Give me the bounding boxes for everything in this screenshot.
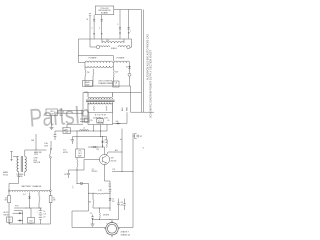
svg-text:6V: 6V xyxy=(44,216,46,218)
vertical label right 1 xyxy=(146,34,149,80)
wire xyxy=(72,211,89,228)
zener D4 xyxy=(101,136,108,147)
connector pin M1 xyxy=(87,14,92,40)
capacitor C11 xyxy=(117,199,123,220)
transformer T2 xyxy=(86,93,115,113)
label T3 xyxy=(17,174,24,178)
wire xyxy=(78,56,113,63)
resistor R4 xyxy=(85,70,90,87)
resistor R5 xyxy=(92,69,95,86)
label F1 xyxy=(44,142,49,147)
wire ACC xyxy=(108,149,122,153)
svg-text:2SB234 (2): 2SB234 (2) xyxy=(121,234,131,236)
transformer T1 primary xyxy=(85,57,130,62)
wire xyxy=(73,131,101,137)
charge coil L3 xyxy=(8,190,51,192)
thyristor SCR1 xyxy=(28,208,35,224)
junction row xyxy=(14,205,42,208)
svg-text:OUT: OUT xyxy=(112,169,115,171)
label VOL xyxy=(63,150,69,154)
transformer T1 secondary xyxy=(85,66,113,68)
wire OUT xyxy=(112,169,133,172)
wire rail V1 xyxy=(140,10,142,113)
diode D9 xyxy=(88,145,105,155)
connector CN1 xyxy=(113,81,119,87)
svg-text:F: F xyxy=(73,188,74,190)
vertical label right 2 xyxy=(150,49,153,118)
wire BLK xyxy=(58,109,84,111)
wire xyxy=(84,62,86,69)
capacitor C4 xyxy=(93,106,96,111)
resistor R17 xyxy=(88,193,94,208)
svg-text:5: 5 xyxy=(92,28,93,30)
svg-text:C2: C2 xyxy=(8,220,10,222)
svg-text:470: 470 xyxy=(121,202,124,204)
wire xyxy=(114,9,142,11)
label main plug xyxy=(3,171,9,176)
label aux xyxy=(4,211,9,216)
resistor R11 xyxy=(49,192,56,225)
power regulator board U1 xyxy=(95,6,114,15)
svg-text:FIELD: FIELD xyxy=(111,48,118,50)
svg-text:50: 50 xyxy=(5,198,7,200)
wire bus xyxy=(78,39,131,56)
label PVR xyxy=(84,92,89,94)
wire RED xyxy=(58,113,84,117)
svg-text:2SC945: 2SC945 xyxy=(111,160,117,162)
wire xyxy=(93,207,110,210)
transformer T3 xyxy=(17,156,26,172)
svg-text:RED: RED xyxy=(127,106,129,111)
lamp PL1 xyxy=(128,71,131,87)
connector pin 3 xyxy=(117,10,121,40)
wire xyxy=(9,223,51,225)
ground xyxy=(50,128,54,130)
diode D5 xyxy=(23,193,31,209)
wire xyxy=(9,172,25,190)
power transistor Q6 xyxy=(72,220,133,238)
resistor R18 xyxy=(99,208,102,220)
svg-text:25V: 25V xyxy=(121,204,124,206)
wire xyxy=(85,86,131,112)
wire xyxy=(92,218,118,221)
battery BT1 xyxy=(37,208,43,224)
fuse F1 xyxy=(50,141,52,190)
capacitor C12 xyxy=(123,199,125,211)
motor field coil L2 xyxy=(90,39,132,50)
svg-text:SWITCH: SWITCH xyxy=(34,162,41,164)
svg-text:DET: DET xyxy=(78,153,81,155)
label battery xyxy=(44,211,47,218)
capacitor C6 xyxy=(54,131,57,140)
wire node B xyxy=(83,93,141,117)
label driver xyxy=(103,215,110,217)
connector pin 2 xyxy=(128,10,131,39)
label main sw xyxy=(34,151,42,156)
connector pin 5 xyxy=(92,15,96,39)
wire xyxy=(131,111,155,113)
capacitor C7 xyxy=(109,184,112,194)
resistor R10 xyxy=(4,192,10,225)
svg-text:C7: C7 xyxy=(109,184,111,186)
svg-text:1: 1 xyxy=(115,85,116,87)
label Q5 xyxy=(92,149,117,173)
svg-text:12V: 12V xyxy=(112,201,115,203)
svg-text:D.C.: D.C. xyxy=(23,194,27,196)
wire xyxy=(80,116,88,122)
jack J5 xyxy=(133,133,142,138)
svg-text:SCHEMATIC DIAGRAM POWER SUPPLY: SCHEMATIC DIAGRAM POWER SUPPLY SECTION S… xyxy=(150,49,153,118)
transistor Q5 xyxy=(77,152,110,188)
wire xyxy=(112,62,114,69)
watermark xyxy=(28,100,91,132)
inductor L1 xyxy=(102,39,124,43)
wire xyxy=(51,116,53,128)
svg-text:R5: R5 xyxy=(90,120,92,122)
svg-text:TRANS: TRANS xyxy=(17,175,24,178)
wire xyxy=(109,208,111,211)
wire xyxy=(94,125,108,132)
svg-text:TRANSFORMER: TRANSFORMER xyxy=(98,82,113,85)
svg-text:4: 4 xyxy=(99,28,100,30)
relay RY1 xyxy=(63,128,71,134)
connector main plug xyxy=(10,152,13,162)
diode D1 xyxy=(126,62,131,70)
svg-text:L4: L4 xyxy=(83,128,85,130)
label battery charge xyxy=(22,185,42,188)
svg-text:IC-1: IC-1 xyxy=(98,121,101,123)
resistor R12 xyxy=(39,192,40,208)
svg-text:B+: B+ xyxy=(44,211,46,213)
photo sensor LDR1 xyxy=(46,109,58,116)
diode D6 xyxy=(109,193,115,208)
capacitor C10 xyxy=(64,170,77,178)
svg-text:MR.SE: MR.SE xyxy=(4,215,9,217)
resistor R3 xyxy=(113,70,119,87)
wire rail right xyxy=(132,133,134,228)
thermal unit TH1 xyxy=(83,81,93,87)
svg-text:VOL: VOL xyxy=(78,151,81,153)
inductor L4 xyxy=(80,128,89,131)
wire xyxy=(87,184,90,212)
svg-text:680: 680 xyxy=(88,202,91,204)
svg-text:2SD313: 2SD313 xyxy=(92,171,98,173)
svg-text:12V: 12V xyxy=(44,214,47,216)
svg-text:2W: 2W xyxy=(87,72,90,74)
svg-text:PLUG: PLUG xyxy=(3,174,9,176)
wire xyxy=(73,182,89,189)
vertical label RED xyxy=(127,106,129,111)
capacitor C8 xyxy=(70,137,74,145)
svg-text:C8: C8 xyxy=(107,120,109,122)
LED D2 xyxy=(113,112,128,124)
svg-text:DRIVER: DRIVER xyxy=(103,215,110,217)
vertical label BLK xyxy=(122,107,124,111)
svg-text:D6: D6 xyxy=(112,199,114,201)
label Q6 xyxy=(121,232,131,237)
diode D7 xyxy=(13,212,23,214)
LED D3 xyxy=(62,124,83,132)
capacitor C9 xyxy=(90,213,95,226)
svg-text:S Y S T E M: S Y S T E M xyxy=(95,114,106,116)
svg-text:C9: C9 xyxy=(90,213,92,215)
capacitor C5 xyxy=(105,106,108,111)
svg-text:50: 50 xyxy=(53,198,55,200)
svg-text:D1: D1 xyxy=(126,67,128,69)
svg-text:BATTERY CHARGE: BATTERY CHARGE xyxy=(22,185,42,188)
svg-text:B+: B+ xyxy=(120,138,122,140)
resistor R15 xyxy=(77,158,78,184)
connector pin 4 xyxy=(99,15,103,39)
label idle control transformer xyxy=(98,80,113,85)
svg-text:BOARD: BOARD xyxy=(101,11,109,14)
wire xyxy=(13,150,32,157)
wire rail V2 xyxy=(142,10,144,113)
svg-text:2: 2 xyxy=(130,31,131,33)
diode D8 xyxy=(18,220,23,222)
wire bus xyxy=(55,130,107,133)
svg-text:POWER: POWER xyxy=(89,57,97,59)
mute unit U3 xyxy=(76,131,85,158)
switch S1 xyxy=(31,134,36,150)
svg-text:3: 3 xyxy=(117,24,118,26)
svg-text:SP: SP xyxy=(140,136,142,138)
connector P2 xyxy=(85,118,89,122)
svg-text:Q5: Q5 xyxy=(92,169,94,171)
wire xyxy=(32,149,47,151)
wire xyxy=(14,211,23,225)
system control board U2 xyxy=(88,113,113,125)
wire rail B+ xyxy=(120,129,122,172)
svg-text:POWER: POWER xyxy=(117,57,125,59)
switch S2 label xyxy=(34,158,41,165)
capacitor C2 xyxy=(7,217,13,224)
resistor R16 xyxy=(89,190,111,194)
label G xyxy=(143,148,145,150)
resistor R14 xyxy=(101,137,108,148)
svg-text:SW: SW xyxy=(31,140,34,142)
